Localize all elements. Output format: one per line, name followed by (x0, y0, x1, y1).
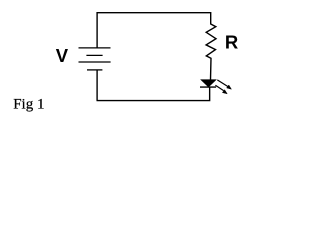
svg-text:R: R (225, 31, 238, 52)
svg-text:Fig 1: Fig 1 (13, 96, 44, 112)
svg-text:V: V (56, 45, 69, 66)
